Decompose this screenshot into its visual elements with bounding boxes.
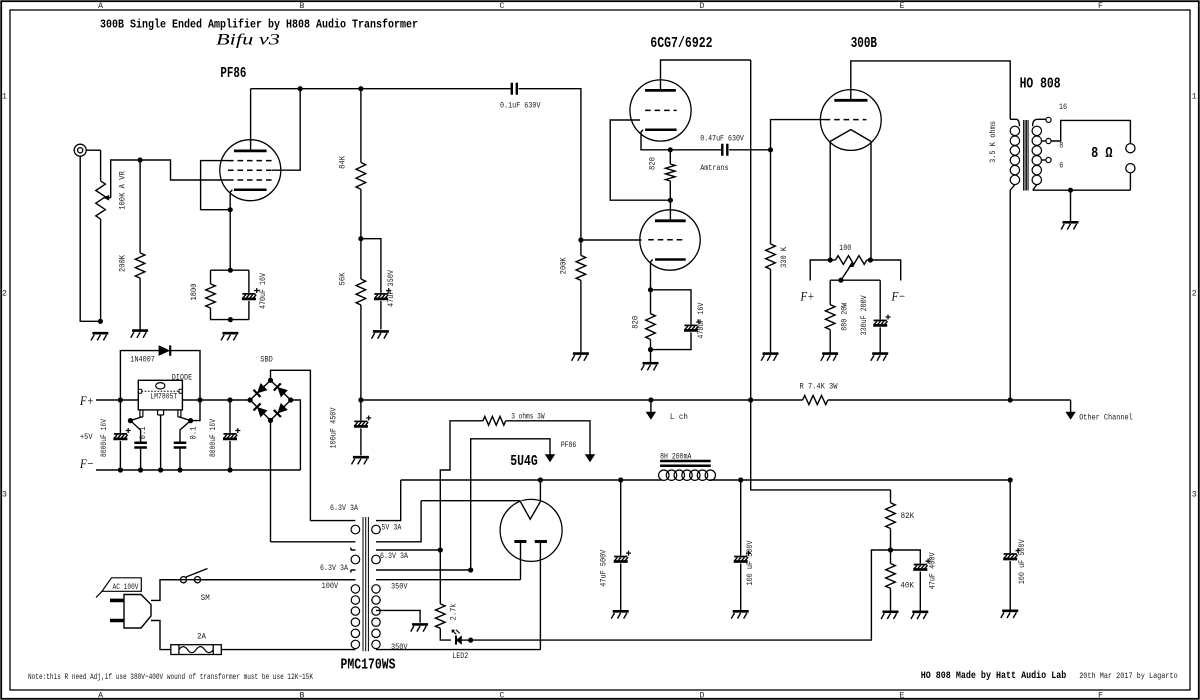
- wire upper plate to rail: [661, 60, 751, 90]
- wire switch to winding: [201, 579, 356, 581]
- wire 7805 pin1: [130, 417, 141, 421]
- resistor 56K: [356, 239, 366, 400]
- svg-text:PF86: PF86: [561, 441, 577, 450]
- svg-text:HO 808 Made by Hatt Audio Lab: HO 808 Made by Hatt Audio Lab: [921, 670, 1067, 682]
- winding 100V primary: [160, 580, 360, 650]
- node rail L ch: [648, 397, 653, 402]
- svg-text:B: B: [300, 692, 305, 700]
- svg-text:0.1: 0.1: [139, 426, 148, 439]
- speaker terminal top: [1126, 144, 1135, 153]
- wire PF86 plate to rail: [250, 89, 252, 151]
- node B+ to OPT: [1008, 477, 1013, 482]
- arrow PF86 heater left: [545, 454, 555, 462]
- wire coupling cap to 6CG7 grid: [519, 89, 581, 240]
- wire 6CG7 B+ drop: [750, 60, 752, 400]
- svg-text:8H 200mA: 8H 200mA: [660, 452, 691, 461]
- ground 47uF 500V: [613, 610, 629, 613]
- resistor 1800 cathode: [206, 270, 249, 319]
- wire bridge right to F-: [291, 400, 301, 470]
- svg-text:470uF 16V: 470uF 16V: [697, 303, 706, 339]
- svg-text:3: 3: [1192, 491, 1197, 500]
- wire 300B plate to OPT: [851, 61, 1010, 119]
- node secondary ground: [1068, 188, 1073, 193]
- capacitor 0.1 first: [130, 421, 147, 473]
- node grid PF86: [138, 157, 143, 162]
- svg-text:Other Channel: Other Channel: [1079, 413, 1133, 423]
- node divider: [888, 547, 893, 552]
- svg-text:200K: 200K: [119, 255, 128, 272]
- wire speaker bottom: [1129, 173, 1131, 190]
- node heater return: [468, 638, 473, 643]
- svg-text:D: D: [700, 2, 705, 11]
- ground 200K 6CG7: [573, 352, 589, 355]
- tube 6CG7 upper V2a: [630, 80, 691, 141]
- svg-text:8000uF 16V: 8000uF 16V: [209, 419, 218, 457]
- node 84K rail: [358, 86, 363, 91]
- switch SM: [180, 569, 207, 583]
- label flag AC 100V: [96, 578, 141, 598]
- node lower cathode: [648, 287, 653, 292]
- node 5U4G output: [538, 477, 543, 482]
- wire grid to tube: [581, 239, 642, 241]
- node lower cathode gnd: [648, 347, 653, 352]
- resistor 2.7k: [436, 550, 451, 640]
- capacitor 0.47uF 630V coupling: [670, 144, 770, 156]
- svg-text:PMC170WS: PMC170WS: [341, 658, 396, 674]
- wire PF86 g3 to cathode: [201, 161, 231, 210]
- svg-text:2A: 2A: [197, 633, 206, 642]
- transformer HO808 secondary: [1032, 126, 1041, 190]
- ground pot/jack: [98, 319, 103, 324]
- arrow PF86 heater right: [585, 454, 595, 462]
- capacitor 330uF 200V: [873, 280, 890, 353]
- svg-text:47uF 500V: 47uF 500V: [599, 550, 608, 587]
- svg-text:L ch: L ch: [670, 412, 688, 422]
- tube 300B V3: [820, 90, 881, 151]
- wire jack to pot: [86, 149, 100, 151]
- node 6.3V top: [438, 547, 443, 552]
- wire 5U4G plate left: [520, 542, 522, 580]
- svg-text:8 Ω: 8 Ω: [1091, 146, 1113, 162]
- ground 47uF 400V: [912, 610, 928, 613]
- wire B+ filter rail: [401, 479, 1011, 481]
- svg-text:100 uF 500V: 100 uF 500V: [1018, 539, 1027, 584]
- wire 6.3V top to 3 ohms: [440, 421, 483, 550]
- node 7805 out: [188, 418, 193, 423]
- node rail OPT: [1008, 397, 1013, 402]
- svg-text:AC 100V: AC 100V: [113, 584, 139, 592]
- tap 6: [1042, 159, 1046, 161]
- svg-text:6.3V 3A: 6.3V 3A: [330, 504, 358, 513]
- svg-text:SBD: SBD: [260, 356, 273, 365]
- transformer PMC170WS core: [363, 517, 368, 651]
- svg-text:Amtrans: Amtrans: [700, 164, 728, 173]
- svg-text:300B: 300B: [851, 36, 878, 52]
- svg-text:47uF 400V: 47uF 400V: [928, 552, 937, 589]
- wire F- rail: [96, 469, 300, 471]
- wire wiper to grid node: [111, 160, 228, 198]
- svg-text:F−: F−: [79, 456, 94, 471]
- LED2: [452, 630, 462, 645]
- svg-text:100V: 100V: [322, 582, 339, 591]
- svg-text:84K: 84K: [339, 156, 348, 169]
- wire SRPP mid to upper grid: [610, 120, 670, 200]
- arrow L ch: [650, 400, 652, 412]
- capacitor 0.1 second: [174, 421, 191, 473]
- capacitor 470uF 16V lower cathode: [651, 290, 702, 350]
- svg-text:6.3V 3A: 6.3V 3A: [380, 552, 408, 561]
- ground 100uF 450V: [353, 456, 369, 459]
- capacitor 470uF 16V cathode: [242, 270, 259, 319]
- row numbers left: [2, 93, 7, 500]
- svg-text:0.1uF 630V: 0.1uF 630V: [500, 102, 541, 111]
- node 6.3V bottom: [468, 567, 473, 572]
- wire AC neutral: [151, 621, 171, 650]
- bridge rectifier SBD: [248, 378, 294, 423]
- svg-text:1800: 1800: [190, 283, 199, 300]
- svg-text:Bifu v3: Bifu v3: [216, 32, 280, 49]
- capacitor 0.1uF 630V coupling: [512, 83, 517, 95]
- node 0.47uF out: [768, 147, 773, 152]
- svg-text:0.47uF 630V: 0.47uF 630V: [700, 134, 744, 143]
- wire jack shell to ground: [80, 156, 100, 321]
- node 100uF500V: [738, 477, 743, 482]
- transformer HO808 primary: [1010, 119, 1019, 400]
- wire F+ stub: [810, 260, 830, 281]
- svg-text:820: 820: [631, 316, 640, 329]
- resistor 820 lower cathode: [646, 290, 656, 350]
- ground 330K: [763, 352, 779, 355]
- svg-text:R 7.4K 3W: R 7.4K 3W: [800, 383, 838, 392]
- resistor 330K 300B grid: [766, 150, 776, 354]
- svg-text:D: D: [700, 692, 705, 700]
- row numbers right: [1192, 93, 1197, 500]
- wire 5U4G filament right to B+: [539, 480, 541, 502]
- svg-text:C: C: [500, 2, 505, 11]
- wire B+ rail PF86: [251, 88, 511, 90]
- svg-text:PF86: PF86: [220, 66, 246, 82]
- wire 3 ohms to arrow: [506, 421, 590, 455]
- svg-text:300B Single Ended Amplifier by: 300B Single Ended Amplifier by H808 Audi…: [100, 18, 418, 32]
- node g2 rail: [298, 86, 303, 91]
- node 56K top: [358, 236, 363, 241]
- ground 820 network: [650, 350, 652, 362]
- capacitor 47uF 400V: [891, 550, 931, 611]
- node rail 100uF: [358, 397, 363, 402]
- tube 5U4G V4: [500, 499, 562, 561]
- wiper arrow hum pot: [841, 267, 850, 280]
- svg-text:0.1: 0.1: [190, 426, 199, 439]
- svg-text:100 uF 500V: 100 uF 500V: [746, 540, 755, 585]
- svg-text:2: 2: [2, 290, 7, 299]
- tube 6CG7 lower V2b: [640, 210, 700, 270]
- wire lower plate up: [669, 200, 671, 221]
- tap 16: [1033, 119, 1046, 126]
- wire 7805 pin3: [179, 417, 190, 421]
- ground 200K: [132, 329, 148, 332]
- fuse 2A: [171, 645, 222, 655]
- svg-text:82K: 82K: [901, 512, 915, 521]
- node cathode g3: [228, 207, 233, 212]
- node 6CG7 grid: [578, 237, 583, 242]
- svg-text:F: F: [1098, 2, 1103, 11]
- svg-text:A: A: [98, 2, 103, 11]
- svg-text:16: 16: [1059, 103, 1067, 112]
- svg-text:E: E: [900, 2, 905, 11]
- wire out to F+: [191, 400, 200, 421]
- svg-text:330uF 200V: 330uF 200V: [860, 295, 869, 335]
- column letters top: [98, 2, 1103, 11]
- svg-text:LED2: LED2: [452, 652, 468, 661]
- wire to 300B grid: [771, 120, 825, 150]
- svg-text:350V: 350V: [391, 583, 408, 592]
- wire upper cathode down: [641, 130, 670, 150]
- node rail 6CG7: [748, 397, 753, 402]
- choke 8H 200mA: [659, 461, 716, 480]
- resistor 40K: [886, 550, 896, 611]
- wire B+ rail: [361, 399, 1071, 401]
- svg-text:E: E: [900, 692, 905, 700]
- wire PF86 cathode down: [230, 190, 232, 210]
- node hum pot wiper: [838, 278, 843, 283]
- svg-text:LM7805T: LM7805T: [150, 393, 177, 402]
- svg-text:470uF 16V: 470uF 16V: [259, 273, 268, 309]
- capacitor 100 uF 500V: [734, 480, 751, 610]
- wire heater bias line: [471, 550, 891, 640]
- wire bridge bottom to winding: [270, 420, 272, 541]
- svg-text:880 20W: 880 20W: [840, 303, 849, 331]
- svg-text:200K: 200K: [560, 257, 569, 274]
- ground 330uF: [872, 352, 888, 355]
- node 7805 in: [128, 418, 133, 423]
- svg-text:100uF 450V: 100uF 450V: [330, 407, 339, 448]
- svg-text:HO 808: HO 808: [1020, 77, 1061, 93]
- svg-text:6: 6: [1059, 161, 1063, 170]
- resistor 200K 6CG7 grid: [576, 240, 586, 353]
- ground 47uF 350V: [373, 330, 389, 333]
- svg-text:820: 820: [648, 157, 657, 170]
- capacitor 8000uF 16V first: [113, 397, 130, 472]
- svg-text:DIODE: DIODE: [172, 374, 193, 383]
- node cathode RC bottom: [228, 317, 233, 322]
- transformer HO808 core: [1024, 120, 1029, 191]
- resistor 200K grid leak: [135, 160, 145, 331]
- ground 880: [822, 352, 838, 355]
- ground HV center tap: [412, 623, 428, 626]
- winding 6.3V 3A right: [372, 550, 471, 570]
- node SRPP mid: [668, 198, 673, 203]
- svg-text:56K: 56K: [339, 272, 348, 285]
- svg-text:A: A: [98, 692, 103, 700]
- wire F+ rail: [96, 399, 250, 401]
- capacitor 47uF 350V: [361, 239, 391, 330]
- wire filament leg left: [829, 141, 831, 260]
- winding 6.3V 3A left primary-side: [271, 521, 360, 542]
- svg-text:100: 100: [839, 244, 851, 253]
- tube PF86 V1: [220, 140, 281, 201]
- ground secondary: [1070, 190, 1072, 221]
- regulator LM7805 U1: [138, 380, 182, 417]
- svg-text:6CG7/6922: 6CG7/6922: [650, 36, 712, 52]
- capacitor 47uF 500V: [614, 480, 631, 610]
- wire secondary bottom: [1033, 189, 1131, 191]
- svg-text:5V 3A: 5V 3A: [381, 523, 401, 532]
- hum pot 100: [828, 256, 873, 265]
- wire tap 8 to speaker: [1051, 120, 1130, 143]
- winding 350V HV: [372, 580, 541, 650]
- wire lower cathode down: [651, 260, 653, 290]
- resistor 880 20W: [825, 280, 835, 353]
- wire 7805 gnd pin: [160, 415, 162, 470]
- wire 5U4G plate right: [539, 542, 541, 650]
- resistor 82K: [886, 490, 896, 550]
- wire 6.3V bottom riser: [471, 439, 550, 570]
- svg-text:3.5 K ohms: 3.5 K ohms: [988, 121, 998, 163]
- speaker terminal bottom: [1126, 164, 1135, 173]
- svg-text:3 ohms 3W: 3 ohms 3W: [511, 412, 544, 422]
- svg-text:6.3V 3A: 6.3V 3A: [320, 564, 348, 573]
- svg-text:1: 1: [1192, 93, 1197, 102]
- ground 40K: [883, 610, 899, 613]
- capacitor 100uF 450V: [354, 400, 371, 455]
- svg-text:5U4G: 5U4G: [510, 454, 537, 470]
- resistor R 7.4K 3W: [803, 395, 828, 404]
- wire PF86 g2 to rail: [272, 89, 300, 171]
- resistor 3 ohms 3W: [483, 416, 506, 425]
- wire LED out: [462, 639, 471, 641]
- svg-text:+5V: +5V: [80, 433, 93, 442]
- wire wiper rail: [830, 279, 880, 281]
- svg-text:3: 3: [2, 491, 7, 500]
- svg-text:1: 1: [2, 93, 7, 102]
- svg-text:Note:this R need Adj,if use 38: Note:this R need Adj,if use 380V~400V wo…: [28, 672, 313, 682]
- svg-text:8: 8: [1059, 141, 1063, 150]
- ground 100uF 500V right: [1002, 609, 1018, 612]
- wire filament leg right: [869, 141, 872, 260]
- svg-text:C: C: [500, 692, 505, 700]
- winding 6.3V 3A left unused: [351, 548, 360, 573]
- ground PF86 cathode: [222, 332, 238, 335]
- svg-text:8000uF 16V: 8000uF 16V: [100, 419, 109, 457]
- capacitor 8000uF 16V second: [223, 397, 240, 472]
- svg-text:F−: F−: [891, 289, 906, 304]
- diode 1N4007: [120, 345, 200, 400]
- svg-text:20th Mar 2017 by Lagarto: 20th Mar 2017 by Lagarto: [1079, 671, 1178, 681]
- svg-text:40K: 40K: [900, 582, 914, 591]
- svg-text:1N4007: 1N4007: [130, 356, 155, 365]
- resistor 84K: [356, 89, 366, 239]
- resistor 820 upper: [666, 150, 676, 200]
- svg-text:2.7k: 2.7k: [449, 603, 459, 620]
- arrow Other Channel: [1070, 400, 1072, 412]
- svg-text:100K A VR: 100K A VR: [119, 171, 128, 210]
- svg-text:F+: F+: [800, 289, 815, 304]
- svg-text:330 K: 330 K: [780, 247, 789, 268]
- input RCA jack J1: [74, 144, 86, 156]
- column letters bottom: [98, 692, 1103, 700]
- svg-text:F+: F+: [79, 393, 94, 408]
- node 47uF500V: [618, 477, 623, 482]
- svg-text:F: F: [1098, 692, 1103, 700]
- svg-text:B: B: [300, 2, 305, 11]
- svg-text:350V: 350V: [391, 643, 408, 652]
- wire 5U4G filament left to 5V: [421, 500, 520, 502]
- potentiometer 100K A VR: [96, 150, 111, 321]
- wire cathode to RC: [229, 210, 231, 271]
- node cathode RC top: [228, 268, 233, 273]
- node upper cathode out: [668, 147, 673, 152]
- wire 82K feed: [751, 400, 891, 490]
- AC plug P1: [110, 595, 151, 629]
- svg-text:47uF 350V: 47uF 350V: [387, 270, 396, 307]
- wire bridge top to winding: [271, 370, 311, 520]
- svg-text:2: 2: [1192, 290, 1197, 299]
- tap 8: [1042, 140, 1046, 142]
- winding 5V 3A: [372, 480, 421, 542]
- ground 100uF 500V: [733, 610, 749, 613]
- capacitor 100 uF 500V right: [1003, 480, 1020, 610]
- wire F- stub: [870, 260, 900, 281]
- svg-text:SM: SM: [201, 594, 210, 603]
- wire AC hot: [151, 580, 180, 601]
